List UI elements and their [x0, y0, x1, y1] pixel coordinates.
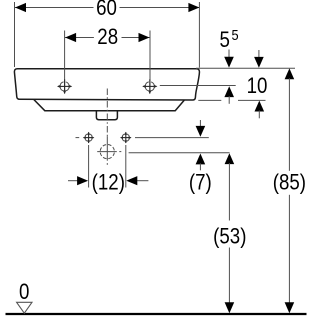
- waste outlet: dashed circle: [100, 145, 114, 159]
- basin underside step: [34, 100, 184, 111]
- datum zero triangle: [17, 302, 32, 313]
- svg-text:60: 60: [96, 0, 117, 21]
- svg-text:(12): (12): [92, 171, 125, 195]
- basin outline: [14, 69, 199, 100]
- floor line: [6, 313, 307, 315]
- dim (53) vertical line: [225, 153, 235, 164]
- wire: dim 60 extension line left: [14, 2, 16, 67]
- svg-text:28: 28: [97, 26, 118, 50]
- arrow 10 up: [255, 101, 265, 112]
- dim (7) up arrow: [196, 154, 206, 165]
- arrow 28 right: [139, 33, 150, 42]
- waste outlet: horizontal centreline segments: [97, 151, 117, 153]
- wire: dim 28 extension/centre line left tap: [64, 31, 66, 91]
- svg-text:(53): (53): [213, 225, 246, 249]
- dim (7) down arrow: [199, 120, 201, 129]
- drain stub: [96, 111, 117, 120]
- wire: dim 60 extension line right: [198, 2, 200, 68]
- svg-text:5: 5: [219, 29, 229, 53]
- wire: (12) extension line right: [125, 145, 127, 188]
- dim (12) left arrow and leader: [68, 180, 78, 182]
- wire: dim 60 line: [15, 7, 94, 9]
- wire: rim top reference line L1: [196, 67, 295, 69]
- svg-text:0: 0: [19, 281, 29, 305]
- arrow 5.5 down: [228, 50, 230, 60]
- dim (85) vertical line: [285, 68, 295, 79]
- arrow 60 left: [15, 3, 26, 12]
- svg-text:(7): (7): [189, 171, 212, 195]
- svg-text:5: 5: [231, 26, 238, 43]
- svg-text:(85): (85): [273, 171, 306, 195]
- fixing hole right symbol: [120, 132, 132, 144]
- dim (12) right arrow and leader: [136, 180, 148, 182]
- wire: (12) extension line left: [88, 145, 90, 188]
- tap hole right symbol: [142, 79, 157, 94]
- arrow 5.5 up: [224, 86, 234, 97]
- wire: basin bottom reference line L3: [198, 99, 221, 101]
- arrow 10 down: [258, 50, 260, 60]
- fixing hole left symbol: [76, 132, 95, 144]
- wire: tap hole level reference line L2: [160, 85, 236, 87]
- wire: dim 28 extension/centre line right tap: [149, 31, 151, 91]
- wire: dim 28 line: [65, 37, 94, 39]
- wire: outlet level reference line L5: [129, 152, 230, 154]
- arrow 28 left: [65, 33, 76, 42]
- wire: fixing holes reference line L4: [135, 137, 209, 139]
- svg-text:10: 10: [247, 75, 268, 99]
- tap hole left symbol: [57, 79, 72, 94]
- wire: drain vertical centreline: [106, 89, 108, 137]
- arrow 60 right: [188, 3, 199, 12]
